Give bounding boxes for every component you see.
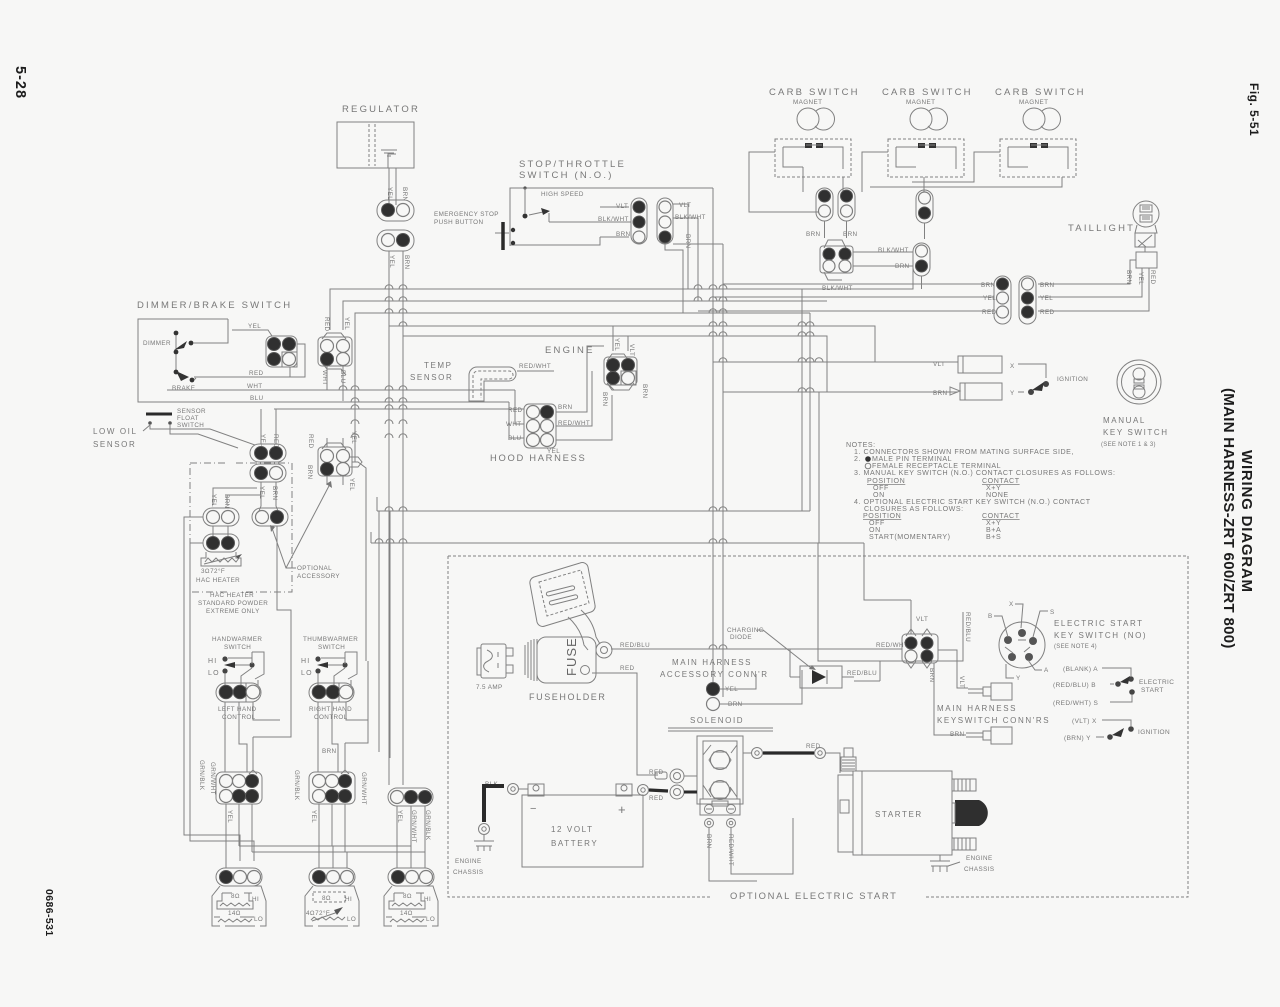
wire Y drop <box>818 392 820 543</box>
svg-text:GRN/BLK: GRN/BLK <box>198 760 205 791</box>
carb switch 1 <box>769 87 860 177</box>
wire RED bus y311 <box>698 310 994 312</box>
label GRN/WHT <box>209 762 216 795</box>
wire battery plus to solenoid <box>638 785 669 796</box>
wire hood harness BRN right <box>556 346 604 412</box>
svg-text:MAGNET: MAGNET <box>793 99 822 106</box>
svg-text:SENSOR: SENSOR <box>177 408 206 415</box>
connector engine block <box>604 354 637 390</box>
label YEL <box>1137 272 1144 285</box>
svg-text:3. MANUAL KEY SWITCH (N.O.) CO: 3. MANUAL KEY SWITCH (N.O.) CONTACT CLOS… <box>854 469 1116 477</box>
svg-text:CARB SWITCH: CARB SWITCH <box>995 87 1086 98</box>
svg-text:HOOD HARNESS: HOOD HARNESS <box>490 452 586 463</box>
connector throttle female column <box>657 198 673 244</box>
svg-text:(RED/BLU) B: (RED/BLU) B <box>1053 682 1096 689</box>
svg-text:SENSOR: SENSOR <box>93 440 136 449</box>
svg-text:LOW OIL: LOW OIL <box>93 427 138 436</box>
wire BLK/WHT down <box>673 218 698 301</box>
svg-text:DIMMER/BRAKE SWITCH: DIMMER/BRAKE SWITCH <box>137 300 292 311</box>
wire BRN regulator down <box>402 251 404 785</box>
accessory conn BRN pin <box>707 698 743 711</box>
svg-text:BRN: BRN <box>981 282 996 289</box>
junction hops <box>339 285 823 649</box>
svg-text:THUMBWARMER: THUMBWARMER <box>303 636 358 643</box>
thumbwarmer switch S5 <box>301 636 358 685</box>
svg-text:A: A <box>1044 667 1049 674</box>
wire riser magneto left <box>801 289 803 511</box>
svg-text:SWITCH (N.O.): SWITCH (N.O.) <box>519 170 614 181</box>
wire RED/BLU from fuseholder <box>611 648 790 650</box>
svg-text:YEL: YEL <box>248 323 261 330</box>
wire left strip to block <box>225 702 280 772</box>
svg-text:8Ω: 8Ω <box>322 895 331 902</box>
svg-text:YEL: YEL <box>310 810 317 823</box>
wire RED/WHT run <box>790 649 902 677</box>
label YEL <box>343 317 350 330</box>
svg-text:WHT: WHT <box>247 383 263 390</box>
connector left hand control strip <box>216 683 261 702</box>
wire VLT down from connector <box>673 204 688 289</box>
connector right hand control strip <box>309 683 354 702</box>
wire long run y511 <box>377 497 810 511</box>
svg-text:14Ω: 14Ω <box>400 910 413 917</box>
svg-text:MAGNET: MAGNET <box>906 99 935 106</box>
svg-text:B: B <box>988 613 993 620</box>
terminal Y BRN <box>933 383 1015 400</box>
wire hac jumper <box>213 488 261 505</box>
svg-text:RED: RED <box>307 434 314 449</box>
svg-text:LO: LO <box>208 670 220 677</box>
connector regulator female pair <box>377 230 414 251</box>
svg-text:BRN: BRN <box>843 231 858 238</box>
svg-text:WHT: WHT <box>506 421 522 428</box>
wire carb3 down to bus <box>870 152 1062 187</box>
svg-text:MAIN HARNESS: MAIN HARNESS <box>937 704 1017 713</box>
svg-text:VLT: VLT <box>916 616 928 623</box>
svg-text:14Ω: 14Ω <box>228 910 241 917</box>
wire RED dimmer <box>194 376 296 378</box>
wire riser magneto right <box>809 313 811 511</box>
svg-text:KEYSWITCH CONN'RS: KEYSWITCH CONN'RS <box>937 716 1050 725</box>
svg-text:BRN: BRN <box>223 494 230 509</box>
label VLT rotated <box>958 676 965 688</box>
svg-text:BLU: BLU <box>250 395 264 402</box>
temp sensor <box>410 361 551 401</box>
label BLU <box>339 370 346 384</box>
svg-text:STOP/THROTTLE: STOP/THROTTLE <box>519 159 626 170</box>
svg-text:(BRN) Y: (BRN) Y <box>1064 735 1091 742</box>
heater element R2 left grip <box>212 886 266 926</box>
connector thumbwarmer block <box>309 772 355 804</box>
low oil sensor <box>93 408 206 449</box>
svg-text:CARB SWITCH: CARB SWITCH <box>769 87 860 98</box>
wire left bus y289 <box>330 263 913 330</box>
wire carb1 to connector <box>749 152 843 212</box>
label BRN <box>705 834 712 849</box>
label WHT <box>321 370 328 386</box>
wire magneto block to bus <box>853 252 922 289</box>
svg-text:DIODE: DIODE <box>730 634 752 641</box>
label BRN <box>641 384 648 399</box>
wire center conn bottom <box>327 476 343 485</box>
wire RED/BLU feed into box <box>818 543 880 661</box>
wire X feed <box>389 326 875 362</box>
taillight L1 <box>1068 201 1159 247</box>
svg-text:SOLENOID: SOLENOID <box>690 716 744 725</box>
label BRN <box>403 255 410 270</box>
svg-text:CHASSIS: CHASSIS <box>964 866 994 873</box>
arrow to diode <box>757 630 811 668</box>
svg-text:Y: Y <box>1016 675 1021 682</box>
svg-text:STANDARD POWDER: STANDARD POWDER <box>198 600 268 607</box>
wire Y feed <box>403 336 827 392</box>
connector regulator male pair <box>377 200 414 221</box>
svg-text:RED: RED <box>620 665 635 672</box>
svg-text:HIGH SPEED: HIGH SPEED <box>541 191 584 198</box>
svg-text:LO: LO <box>301 670 313 677</box>
svg-text:GRN/WHT: GRN/WHT <box>209 762 216 795</box>
svg-text:5-28: 5-28 <box>12 66 28 99</box>
wire dimmer right side <box>290 344 305 377</box>
terminal BRN keyswitch <box>934 663 1012 744</box>
wire temp sensor RED/WHT <box>517 370 554 372</box>
wire WHT dimmer <box>167 390 524 424</box>
connector temp block <box>318 333 352 375</box>
engine <box>545 345 595 356</box>
wire carb pairs to lower block <box>825 221 925 239</box>
wire Y line <box>723 391 958 393</box>
wire carb2 to connector <box>862 152 924 193</box>
wire YEL dimmer <box>232 330 272 336</box>
connector optional accessory pair <box>252 508 288 526</box>
svg-text:OPTIONAL: OPTIONAL <box>297 565 332 572</box>
svg-text:7.5 AMP: 7.5 AMP <box>476 684 503 691</box>
label YEL <box>210 494 217 507</box>
svg-text:BRN: BRN <box>403 255 410 270</box>
connector dimmer block <box>266 336 297 367</box>
label YEL <box>258 486 265 499</box>
svg-text:BLK/WHT: BLK/WHT <box>598 216 629 223</box>
svg-text:EMERGENCY STOP: EMERGENCY STOP <box>434 211 499 218</box>
label GRN/WHT right block right <box>360 772 367 805</box>
svg-text:BRN: BRN <box>271 486 278 501</box>
label YEL <box>348 478 355 491</box>
svg-text:LO: LO <box>426 916 435 923</box>
svg-text:RED: RED <box>1149 270 1156 285</box>
svg-text:RED/WHT: RED/WHT <box>519 363 551 370</box>
svg-text:IGNITION: IGNITION <box>1057 376 1088 383</box>
svg-text:FUSE: FUSE <box>564 637 579 676</box>
wire low oil to red bus <box>261 409 276 444</box>
hood harness connector <box>524 404 556 448</box>
charging diode D1 <box>790 666 854 688</box>
wire YEL taillight <box>1038 268 1142 297</box>
svg-text:2.: 2. <box>854 455 861 463</box>
electric start key switch <box>988 601 1055 682</box>
svg-text:YEL: YEL <box>348 478 355 491</box>
svg-text:HI: HI <box>424 896 431 903</box>
svg-text:3Ω72°F: 3Ω72°F <box>201 567 225 575</box>
label GRN/BLK right block left <box>293 770 300 801</box>
svg-text:OPTIONAL ELECTRIC START: OPTIONAL ELECTRIC START <box>730 890 898 901</box>
svg-text:(BLANK) A: (BLANK) A <box>1063 666 1098 673</box>
svg-text:(SEE NOTE 1 & 3): (SEE NOTE 1 & 3) <box>1101 442 1156 448</box>
svg-text:12 VOLT: 12 VOLT <box>551 825 594 834</box>
svg-text:START(MOMENTARY): START(MOMENTARY) <box>869 533 951 541</box>
label GRN/WHT <box>410 810 417 843</box>
connector aux strip <box>388 788 433 806</box>
wire RED taillight <box>1038 268 1149 311</box>
svg-text:(VLT) X: (VLT) X <box>1072 718 1097 725</box>
svg-text:DIMMER: DIMMER <box>143 340 171 347</box>
svg-text:IGNITION: IGNITION <box>1138 729 1170 736</box>
solenoid lower terminals <box>705 819 714 828</box>
wire left bus y301 <box>343 301 827 330</box>
center accessory connector <box>318 443 362 476</box>
label RED/WHT <box>727 834 734 866</box>
svg-text:8Ω: 8Ω <box>403 893 412 900</box>
svg-text:SWITCH: SWITCH <box>177 422 204 429</box>
svg-text:X: X <box>1010 363 1015 370</box>
svg-text:X: X <box>1009 601 1014 608</box>
wire low oil sensor to connector <box>150 425 255 448</box>
wire low oil pair down <box>259 482 278 511</box>
svg-text:BRAKE: BRAKE <box>172 385 195 392</box>
wire hac pair down <box>213 526 228 537</box>
heater element 2 strip <box>309 868 355 886</box>
svg-text:HAC HEATER: HAC HEATER <box>196 577 240 584</box>
fuse cover <box>530 563 600 650</box>
wire center conn top <box>327 438 343 447</box>
svg-text:SWITCH: SWITCH <box>318 644 345 651</box>
connector low oil pair A <box>250 444 286 462</box>
svg-text:BRN: BRN <box>322 748 337 755</box>
wire engine YEL up <box>612 326 614 351</box>
svg-text:RED/BLU: RED/BLU <box>620 642 650 649</box>
dimmer/brake switch S3 <box>137 300 292 402</box>
wire BRN branch down <box>673 244 723 697</box>
svg-text:GRN/WHT: GRN/WHT <box>360 772 367 805</box>
label GRN/BLK <box>424 810 431 841</box>
connector handwarmer block <box>216 772 262 804</box>
svg-text:BRN: BRN <box>401 187 408 202</box>
svg-text:BRN: BRN <box>1125 270 1132 285</box>
svg-text:YEL: YEL <box>259 434 266 447</box>
svg-text:YEL: YEL <box>386 187 393 200</box>
starter <box>838 748 988 855</box>
carb switch 3 <box>995 87 1086 177</box>
wire diode to keyswitch B <box>854 612 963 681</box>
connector low oil pair B <box>250 464 286 482</box>
battery <box>522 784 643 867</box>
svg-text:Fig. 5-51: Fig. 5-51 <box>1247 83 1261 136</box>
svg-text:+: + <box>618 802 627 817</box>
wires switch to connector <box>600 207 631 237</box>
wire left bus y313 <box>355 313 810 462</box>
svg-text:ACCESSORY CONN'R: ACCESSORY CONN'R <box>660 670 769 679</box>
svg-text:RED/WHT: RED/WHT <box>876 642 908 649</box>
page number 5-28 <box>12 66 28 99</box>
wire VLT riser into box <box>864 543 911 600</box>
label YEL below right block <box>310 810 317 823</box>
svg-text:KEY SWITCH: KEY SWITCH <box>1103 428 1169 437</box>
svg-text:MAIN HARNESS: MAIN HARNESS <box>672 658 752 667</box>
svg-text:BLK/WHT: BLK/WHT <box>878 247 909 254</box>
svg-text:YEL: YEL <box>226 810 233 823</box>
svg-text:BRN: BRN <box>1040 282 1055 289</box>
heater element 3 strip <box>388 868 434 886</box>
svg-text:ELECTRIC START: ELECTRIC START <box>1054 619 1144 628</box>
wire hood harness YEL right <box>556 395 612 440</box>
label YEL <box>350 431 357 444</box>
svg-text:TEMP: TEMP <box>424 361 453 370</box>
svg-text:VLT: VLT <box>958 676 965 688</box>
svg-text:HI: HI <box>301 658 310 665</box>
terminal X VLT <box>933 356 1015 373</box>
accessory conn YEL pin <box>707 683 739 696</box>
label RED <box>323 317 330 332</box>
taillight terminal box <box>1136 252 1157 268</box>
heater element R4 right grip <box>384 886 438 926</box>
wire grn/wht feed left <box>190 543 254 861</box>
arrow optional accessory to center connector <box>286 484 330 568</box>
label BRN <box>223 494 230 509</box>
connector hac pair female <box>203 508 239 526</box>
connector throttle male column <box>631 198 647 244</box>
starter ground <box>930 855 994 873</box>
svg-text:PUSH BUTTON: PUSH BUTTON <box>434 219 483 226</box>
solenoid <box>668 716 773 815</box>
notes <box>846 441 1116 541</box>
wire YEL BRN to right <box>720 670 802 704</box>
wire BRN bus y284 <box>723 284 994 313</box>
svg-text:ACCESSORY: ACCESSORY <box>297 573 340 580</box>
wire BRN down <box>665 244 683 313</box>
wire hood harness RED left <box>274 408 524 410</box>
wire BLU dimmer <box>138 402 524 438</box>
svg-text:START: START <box>1141 687 1164 694</box>
svg-text:BRN: BRN <box>641 384 648 399</box>
svg-text:RED: RED <box>1040 309 1055 316</box>
svg-text:EXTREME ONLY: EXTREME ONLY <box>206 608 260 615</box>
svg-text:BRN: BRN <box>306 465 313 480</box>
svg-text:RED: RED <box>249 370 264 377</box>
drawing number 0686-531 <box>43 889 55 937</box>
svg-text:RED/BLU: RED/BLU <box>964 612 971 642</box>
wire keyswitch conn to terminals <box>938 650 968 688</box>
svg-text:BRN: BRN <box>806 231 821 238</box>
connector carb2 column <box>916 190 933 223</box>
wire X line <box>713 361 958 363</box>
wire solenoid lower down <box>709 818 793 881</box>
wire RED from fuseholder <box>592 673 658 775</box>
svg-text:RED: RED <box>508 407 523 414</box>
svg-text:LO: LO <box>254 916 263 923</box>
svg-text:FUSEHOLDER: FUSEHOLDER <box>529 692 607 702</box>
heater element 1 strip <box>216 868 262 886</box>
regulator U1 <box>337 104 420 168</box>
connector hac heater pair <box>203 534 239 552</box>
label RED/BLU rotated <box>964 612 971 642</box>
optional electric start dashed box <box>448 556 1188 897</box>
svg-text:YEL: YEL <box>210 494 217 507</box>
svg-text:8Ω: 8Ω <box>231 893 240 900</box>
fuse 7.5A <box>476 644 513 691</box>
wire solenoid right RED to starter <box>743 743 840 773</box>
emergency stop push button S2 <box>434 211 515 250</box>
svg-text:RED: RED <box>323 317 330 332</box>
wire grn/blk feed left <box>184 517 240 861</box>
svg-text:KEY SWITCH (NO): KEY SWITCH (NO) <box>1054 631 1147 640</box>
svg-text:SWITCH: SWITCH <box>224 644 251 651</box>
label YEL <box>613 338 620 351</box>
label RED <box>1149 270 1156 285</box>
wire brn feed right block <box>341 661 368 774</box>
contact table <box>1053 666 1174 742</box>
wire temp conn WHT drop <box>326 366 328 390</box>
handwarmer switch S4 <box>208 636 264 685</box>
svg-text:CONTROL: CONTROL <box>314 714 348 721</box>
label YEL <box>396 810 403 823</box>
wire bus verticals mid <box>352 462 390 758</box>
wire VLT into box <box>910 600 912 634</box>
svg-text:YEL: YEL <box>343 317 350 330</box>
svg-text:RED/BLU: RED/BLU <box>847 670 877 677</box>
title WIRING DIAGRAM <box>1238 450 1255 593</box>
svg-text:BATTERY: BATTERY <box>551 839 598 848</box>
label BRN <box>1125 270 1132 285</box>
label YEL <box>388 255 395 268</box>
arrow optional accessory to pair <box>272 528 296 568</box>
wire YEL regulator down <box>388 251 390 785</box>
connector taillight male column <box>994 276 1011 324</box>
label YEL below <box>226 810 233 823</box>
label BRN <box>601 392 608 407</box>
stop/throttle switch S1 <box>510 159 626 245</box>
wire BRN taillight <box>1038 260 1136 284</box>
wire regulator to connector <box>389 168 396 205</box>
connector carb1 pair B <box>838 188 855 221</box>
connector taillight female column <box>1019 276 1036 324</box>
wire taillight to terminal box <box>1144 247 1146 252</box>
svg-text:−: − <box>530 803 537 815</box>
svg-text:CHASSIS: CHASSIS <box>453 869 483 876</box>
svg-text:HI: HI <box>208 658 217 665</box>
label BRN rotated below <box>928 668 935 683</box>
label BRN <box>306 465 313 480</box>
wire cross runs heaters <box>239 846 425 852</box>
label BRN <box>684 234 691 249</box>
wire BLK battery to ground <box>453 781 528 876</box>
svg-text:HI: HI <box>345 896 352 903</box>
main harness keyswitch connector block <box>902 629 938 668</box>
svg-text:HI: HI <box>252 896 259 903</box>
wire low oil sensor label line <box>143 425 150 431</box>
label RED <box>272 434 279 449</box>
wire solenoid left RED <box>649 769 697 802</box>
figure label Fig. 5-51 <box>1247 83 1261 136</box>
svg-text:LO: LO <box>347 916 356 923</box>
svg-text:0686-531: 0686-531 <box>43 889 55 937</box>
label RED <box>307 434 314 449</box>
label YEL <box>386 187 393 200</box>
svg-text:ENGINE: ENGINE <box>966 855 993 862</box>
svg-text:SENSOR: SENSOR <box>410 373 453 382</box>
wire engine VLT up <box>627 336 629 351</box>
svg-text:STARTER: STARTER <box>875 810 923 819</box>
label GRN/BLK <box>198 760 205 791</box>
svg-text:VLT: VLT <box>628 344 635 356</box>
